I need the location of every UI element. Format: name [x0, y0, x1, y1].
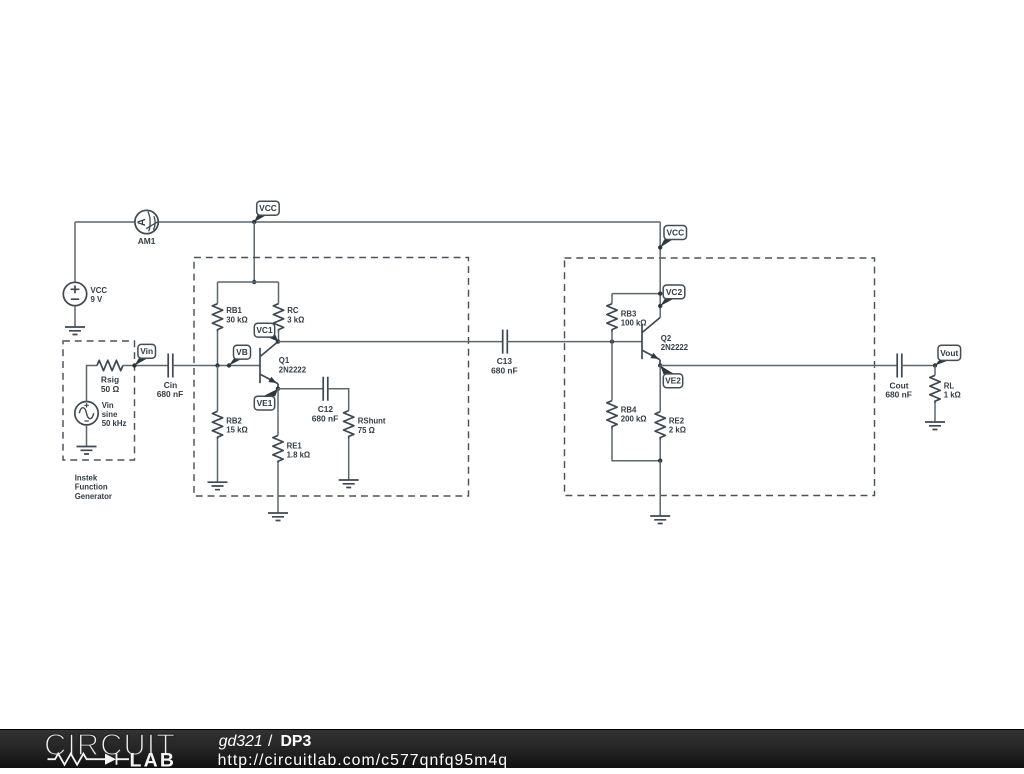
svg-text:RShunt: RShunt [358, 417, 386, 426]
node RB3 top [658, 291, 662, 295]
svg-text:Vin: Vin [102, 401, 114, 410]
svg-text:680 nF: 680 nF [885, 390, 912, 400]
resistor RShunt [344, 411, 354, 439]
ground under stage 2 [650, 516, 670, 524]
svg-text:75 Ω: 75 Ω [358, 426, 375, 435]
wire emitter to C12 [278, 388, 323, 390]
svg-text:2 kΩ: 2 kΩ [669, 426, 686, 435]
wire V1 bottom [74, 306, 76, 327]
wire top rail left (V1 to AM1) [75, 221, 135, 223]
wire V1 top riser [74, 222, 76, 282]
capacitor Cin [168, 354, 173, 378]
svg-text:DP3: DP3 [281, 733, 312, 750]
resistor RE1 [277, 389, 279, 436]
wire Vin bottom [86, 425, 88, 447]
dashed box stage 2 [565, 258, 875, 496]
ammeter AM1 [135, 210, 158, 233]
node Q1 emitter [276, 387, 280, 391]
svg-text:RC: RC [287, 306, 299, 315]
node RB3/RB4 junction [610, 339, 614, 343]
capacitor C12 [323, 377, 328, 401]
svg-text:AM1: AM1 [138, 236, 156, 246]
node Vin [132, 363, 136, 367]
flag Vout [935, 361, 948, 366]
capacitor Cout [897, 354, 902, 378]
voltage source VCC V1 [63, 282, 86, 305]
svg-text:RL: RL [944, 382, 955, 391]
node VC2 anchor [658, 304, 662, 308]
svg-text:2N2222: 2N2222 [661, 343, 689, 352]
svg-text:RB3: RB3 [621, 309, 637, 318]
wire bottom junction to ground [659, 461, 661, 516]
resistor RB4 [611, 342, 613, 401]
resistor RB3 [611, 294, 613, 304]
svg-text:9 V: 9 V [91, 295, 104, 304]
wire RB3 top link [612, 293, 660, 295]
svg-text:Vout: Vout [940, 348, 958, 358]
wire C13 to Q2 base [507, 341, 642, 343]
svg-text:LAB: LAB [130, 749, 177, 769]
svg-text:VCC: VCC [666, 227, 684, 237]
svg-text:Q2: Q2 [661, 334, 672, 343]
flag VB [229, 359, 243, 366]
svg-text:VC2: VC2 [666, 287, 683, 297]
node Vout [933, 363, 937, 367]
flag VE1 [263, 389, 278, 397]
svg-text:VE1: VE1 [257, 398, 273, 408]
svg-text:RB4: RB4 [621, 405, 637, 414]
wire Rsig to Vin node [123, 365, 168, 367]
wire Cout to Vout node [902, 365, 935, 367]
resistor RB2 [217, 366, 219, 412]
ground under V1 [65, 327, 85, 335]
svg-text:3 kΩ: 3 kΩ [287, 316, 304, 325]
dashed box stage 1 [194, 258, 469, 497]
wire Cin to Q1 base [173, 365, 260, 367]
svg-text:gd321: gd321 [219, 733, 263, 750]
svg-text:Function: Function [75, 483, 108, 492]
svg-text:15 kΩ: 15 kΩ [226, 426, 247, 435]
ground under Vin [77, 447, 97, 455]
node VCC stage2 anchor [658, 245, 662, 249]
node RB4/RE2 bottom junction [658, 459, 662, 463]
svg-text:Generator: Generator [75, 492, 112, 501]
svg-text:RB1: RB1 [226, 306, 242, 315]
logo diode triangle [105, 754, 116, 765]
svg-text:http://circuitlab.com/c577qnfq: http://circuitlab.com/c577qnfq95m4q [218, 752, 509, 769]
svg-text:680 nF: 680 nF [157, 389, 184, 399]
transistor Q2 2N2222 [642, 318, 660, 365]
ground under RB2 [208, 482, 228, 490]
svg-text:VCC: VCC [91, 286, 108, 295]
svg-text:2N2222: 2N2222 [279, 365, 307, 374]
wire Q2 emitter to Cout [660, 365, 897, 367]
logo resistor-diode glyph [48, 754, 130, 765]
svg-text:VE2: VE2 [665, 376, 681, 386]
svg-text:200 kΩ: 200 kΩ [621, 415, 647, 424]
svg-text:A: A [136, 218, 148, 226]
transistor Q1 2N2222 [260, 342, 278, 389]
svg-text:sine: sine [102, 410, 118, 419]
node VCC (top, stage1 feed) [252, 220, 256, 224]
dashed box Instek function generator [63, 341, 135, 460]
svg-text:50 kHz: 50 kHz [102, 419, 127, 428]
resistor RE2 [659, 366, 661, 412]
wire VCC drop stage2 [659, 222, 661, 318]
resistor RL [934, 366, 936, 376]
capacitor C13 [503, 330, 508, 354]
svg-text:RB2: RB2 [226, 416, 242, 425]
svg-text:RE2: RE2 [669, 416, 685, 425]
wire Vin top riser [87, 366, 98, 402]
svg-text:680 nF: 680 nF [491, 365, 518, 375]
resistor Rsig [97, 360, 123, 370]
wire C12 to RShunt [328, 389, 349, 411]
wire VCC drop to stage1 rail [253, 222, 255, 282]
svg-text:Vin: Vin [140, 346, 153, 356]
svg-text:1 kΩ: 1 kΩ [944, 391, 961, 400]
node VC1 / Q1 collector [276, 339, 280, 343]
node stage1 rail [252, 280, 256, 284]
node Q2 emitter [658, 363, 662, 367]
svg-text:Q1: Q1 [279, 356, 290, 365]
svg-text:50 Ω: 50 Ω [101, 384, 120, 394]
wire VC1 to C13 [278, 341, 503, 343]
resistor RC [278, 282, 280, 304]
voltage source Vin (sine) [75, 402, 98, 425]
flag VC2 [660, 299, 673, 306]
flag VE2 [660, 366, 674, 375]
flag VCC right [660, 239, 673, 247]
ground under RL [925, 422, 945, 430]
svg-text:Instek: Instek [75, 473, 98, 482]
svg-text:VB: VB [236, 347, 248, 357]
node VB anchor [227, 363, 231, 367]
resistor RB1 [217, 282, 219, 304]
svg-text:680 nF: 680 nF [312, 413, 339, 423]
wire top rail right (AM1 to VCC corner of stage 2) [158, 221, 660, 223]
flag Vin [135, 358, 148, 365]
svg-text:RE1: RE1 [287, 441, 303, 450]
node RB1/RB2 junction [215, 363, 219, 367]
wire stage1 top rail [218, 281, 279, 283]
svg-text:VC1: VC1 [256, 325, 273, 335]
svg-text:/: / [268, 733, 273, 750]
svg-text:1.8 kΩ: 1.8 kΩ [287, 451, 311, 460]
ground under RE1 [268, 513, 288, 521]
flag VC1 [264, 335, 279, 341]
svg-text:VCC: VCC [259, 203, 277, 213]
svg-text:30 kΩ: 30 kΩ [226, 316, 247, 325]
flag VCC left [254, 215, 266, 222]
ground under RShunt [339, 480, 359, 488]
